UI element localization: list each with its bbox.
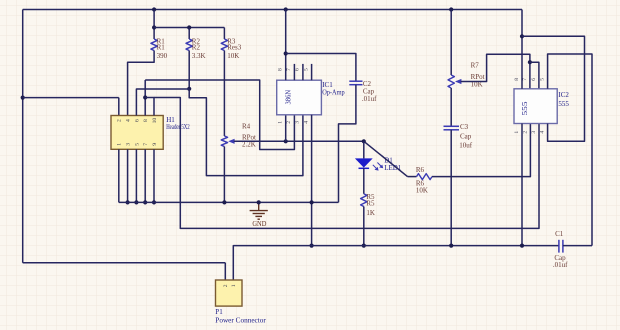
potentiometer R4 bbox=[221, 136, 234, 147]
label R6 comment bbox=[416, 179, 425, 187]
capacitor C3 bbox=[444, 126, 460, 130]
svg-text:C1: C1 bbox=[555, 230, 564, 238]
wire: op-amp pin 7 stub bbox=[293, 64, 295, 80]
wire: op-amp pin 6 stub bbox=[302, 64, 304, 80]
svg-text:Res3: Res3 bbox=[227, 44, 242, 52]
label R1 designator bbox=[157, 37, 166, 45]
label C2 comment Cap bbox=[363, 87, 375, 95]
wire: C1 right plate to pin 5 column bbox=[563, 245, 592, 247]
pin number H1 pin 7 bbox=[143, 143, 149, 146]
wire: ground bus horizontal bbox=[119, 201, 339, 203]
label D1 comment LED1 bbox=[384, 164, 402, 172]
pin number IC2 pin 2 bbox=[522, 131, 528, 134]
svg-text:.01uf: .01uf bbox=[553, 261, 568, 269]
svg-text:R7: R7 bbox=[471, 62, 480, 70]
node: ground bus junction at H1 pin 5 bbox=[134, 200, 138, 204]
svg-text:390: 390 bbox=[157, 52, 168, 60]
wire: long wire H1 pin 8 to op-amp pin 2 bbox=[145, 80, 294, 150]
svg-text:7: 7 bbox=[143, 143, 149, 146]
label IC2 designator bbox=[558, 91, 569, 99]
svg-text:R5: R5 bbox=[366, 199, 375, 207]
label R1 value 390 bbox=[157, 52, 168, 60]
node: bottom rail junction at op-amp pin 4 column bbox=[310, 244, 314, 248]
node: junction R1/R2/R3 tie bbox=[152, 25, 156, 29]
svg-text:555: 555 bbox=[522, 101, 529, 116]
pin number IC2 pin 3 bbox=[531, 131, 537, 134]
op-amp IC1 body bbox=[277, 80, 322, 115]
svg-text:5: 5 bbox=[303, 68, 309, 71]
wire: branch right to C2 top bbox=[286, 54, 356, 82]
node: junction H1 pin 8 / pin 10 branch bbox=[143, 95, 147, 99]
svg-text:.01uf: .01uf bbox=[362, 95, 377, 103]
svg-text:Header 5X2: Header 5X2 bbox=[166, 123, 190, 131]
pin number IC2 pin 4 bbox=[540, 131, 546, 134]
svg-text:8: 8 bbox=[278, 68, 284, 71]
label R6 value 10K bbox=[416, 187, 428, 195]
label IC1 386N rotated bbox=[286, 90, 293, 105]
svg-text:1: 1 bbox=[278, 121, 284, 124]
svg-text:4: 4 bbox=[126, 119, 132, 122]
label D1 designator bbox=[384, 157, 393, 165]
label R5 comment bbox=[366, 199, 375, 207]
pin number P1 pin 2 bbox=[223, 284, 229, 287]
label R4 designator bbox=[242, 123, 251, 131]
node: ground bus junction at H1 pin 3 bbox=[126, 200, 130, 204]
svg-text:5: 5 bbox=[540, 78, 546, 81]
wire: rail down to op-amp pin 8 bbox=[285, 10, 287, 81]
wire: H1 pin 1 to ground bus bbox=[118, 149, 120, 202]
wire: left vertical rail bbox=[22, 10, 24, 263]
node: top rail junction at op-amp pin 8 bbox=[284, 7, 288, 11]
svg-text:1: 1 bbox=[231, 284, 237, 287]
wire: horizontal tie to R2 and R3 tops bbox=[154, 27, 224, 29]
label R4 value 2.2K bbox=[242, 140, 256, 148]
wire: R3 top lead bbox=[223, 28, 225, 40]
wire: C2 bottom around to ground bus end bbox=[339, 85, 356, 203]
pin number H1 pin 2 bbox=[117, 119, 123, 122]
svg-text:1K: 1K bbox=[366, 209, 375, 217]
wire: bottom supply rail from P1 pin 1 to C1 bbox=[233, 246, 559, 280]
wire: H1 pin 8 up to long feedback wire bbox=[144, 80, 146, 116]
label IC1 comment Op-Amp bbox=[322, 88, 345, 96]
pin number IC1 pin 1 bbox=[278, 121, 284, 124]
pin number H1 pin 9 bbox=[152, 143, 158, 146]
svg-text:5: 5 bbox=[134, 143, 140, 146]
label C1 designator bbox=[555, 230, 564, 238]
resistor R2 bbox=[186, 39, 192, 51]
node: ground bus junction at R4 bbox=[222, 200, 226, 204]
pin number H1 pin 4 bbox=[126, 119, 132, 122]
pin number IC2 pin 7 bbox=[522, 78, 528, 81]
svg-text:9: 9 bbox=[152, 143, 158, 146]
svg-text:4: 4 bbox=[540, 131, 546, 134]
label GND bbox=[252, 221, 266, 228]
svg-text:555: 555 bbox=[558, 100, 569, 108]
wire: R6 right lead to 555 pin 2 bbox=[432, 124, 530, 177]
pin number IC1 pin 7 bbox=[286, 68, 292, 71]
label R2 comment bbox=[192, 44, 201, 52]
label R3 comment Res3 bbox=[227, 44, 242, 52]
svg-text:2: 2 bbox=[223, 284, 229, 287]
label R7 designator bbox=[471, 62, 480, 70]
pin number IC1 pin 5 bbox=[303, 68, 309, 71]
wire: R4 bottom to ground bus bbox=[223, 147, 225, 203]
ground symbol GND bbox=[250, 202, 268, 219]
resistor R1 bbox=[151, 39, 157, 51]
label R7 comment RPot bbox=[471, 73, 485, 81]
svg-text:3: 3 bbox=[295, 121, 301, 124]
wire: H1 pin 5 to ground bus bbox=[135, 149, 137, 202]
capacitor C2 bbox=[349, 81, 362, 85]
timer IC2 body bbox=[514, 89, 557, 124]
svg-text:IC2: IC2 bbox=[558, 91, 569, 99]
pin number IC1 pin 8 bbox=[278, 68, 284, 71]
wire: branch to 555 pin 3 (lower long route) bbox=[154, 98, 539, 229]
pin number P1 pin 1 bbox=[231, 284, 237, 287]
wire: rail to H1 pin 2 bbox=[23, 98, 119, 116]
wire: op-amp pin 1 down to wiper wire bbox=[285, 115, 287, 142]
label R3 value 10K bbox=[227, 52, 239, 60]
svg-text:10K: 10K bbox=[416, 187, 428, 195]
wire: C3 bottom to bottom rail bbox=[450, 130, 452, 246]
node: junction at R2 top bbox=[187, 25, 191, 29]
label R5 value 1K bbox=[366, 209, 375, 217]
label C3 value 10uf bbox=[459, 141, 473, 149]
pin number IC1 pin 6 bbox=[295, 68, 301, 71]
label C3 designator bbox=[460, 123, 469, 131]
pin number IC2 pin 8 bbox=[514, 78, 520, 81]
connector H1 body bbox=[111, 116, 163, 150]
node: ground bus junction at GND bbox=[257, 200, 261, 204]
wire: tie to 555 pin 6 bbox=[530, 62, 539, 89]
svg-text:Op-Amp: Op-Amp bbox=[322, 88, 345, 96]
pin number IC2 pin 5 bbox=[540, 78, 546, 81]
wire: H1 pin 6 up and right to R2 junction bbox=[136, 89, 189, 116]
label C2 value .01uf bbox=[362, 95, 377, 103]
svg-text:8: 8 bbox=[514, 78, 520, 81]
svg-text:1: 1 bbox=[117, 143, 123, 146]
wire: rail down to R7 top bbox=[450, 10, 452, 76]
node: top rail junction at R1 column bbox=[152, 7, 156, 11]
node: bottom rail junction at R5 bbox=[362, 244, 366, 248]
pin number IC1 pin 4 bbox=[303, 121, 309, 124]
wire: H1 pin 7 to ground bus bbox=[144, 149, 146, 202]
label C3 comment Cap bbox=[460, 132, 472, 140]
LED D1 emission arrows bbox=[373, 163, 383, 171]
label R1 comment bbox=[157, 44, 166, 52]
pin number H1 pin 5 bbox=[134, 143, 140, 146]
svg-text:7: 7 bbox=[286, 68, 292, 71]
svg-text:Power Connector: Power Connector bbox=[215, 316, 266, 324]
label C1 value .01uf bbox=[553, 261, 568, 269]
svg-text:8: 8 bbox=[143, 119, 149, 122]
svg-text:386N: 386N bbox=[286, 90, 293, 105]
svg-text:4: 4 bbox=[303, 121, 309, 124]
label P1 designator bbox=[215, 308, 223, 316]
wire: R3 bottom lead to R4 top bbox=[223, 51, 225, 137]
resistor R6 bbox=[417, 174, 433, 180]
wire: R1 bottom to H1 pin 4 bbox=[128, 51, 155, 116]
pin number H1 pin 10 bbox=[152, 118, 158, 124]
pin number H1 pin 3 bbox=[126, 143, 132, 146]
resistor R5 bbox=[361, 194, 367, 207]
wire: rail drop to R1 top bbox=[153, 10, 155, 40]
label P1 comment Power Connector bbox=[215, 316, 266, 324]
pin number H1 pin 1 bbox=[117, 143, 123, 146]
node: rail junction to H1 pin 2 net bbox=[21, 96, 25, 100]
wire: R2 top lead bbox=[188, 28, 190, 40]
svg-text:3: 3 bbox=[531, 131, 537, 134]
svg-text:R2: R2 bbox=[192, 44, 201, 52]
node: junction R2 / H1 pin 6 net bbox=[187, 87, 191, 91]
svg-text:7: 7 bbox=[522, 78, 528, 81]
label IC2 555 rotated bbox=[522, 101, 529, 116]
wire: op-amp pin 5 stub bbox=[311, 64, 313, 80]
pin number H1 pin 6 bbox=[134, 119, 140, 122]
svg-text:Cap: Cap bbox=[363, 87, 375, 95]
node: junction 555 pin 7 / pin 6 tie bbox=[528, 60, 532, 64]
svg-text:C3: C3 bbox=[460, 123, 469, 131]
wire: R5 bottom to bottom rail bbox=[363, 207, 365, 246]
svg-text:10uf: 10uf bbox=[459, 141, 473, 149]
node: bottom rail junction at 555 pin 1 bbox=[520, 244, 524, 248]
svg-text:6: 6 bbox=[295, 68, 301, 71]
label H1 designator bbox=[166, 116, 175, 124]
pin number IC1 pin 2 bbox=[286, 121, 292, 124]
label R3 designator bbox=[227, 37, 236, 45]
svg-text:1: 1 bbox=[514, 131, 520, 134]
svg-text:R1: R1 bbox=[157, 44, 166, 52]
label R4 comment RPot bbox=[242, 134, 256, 142]
resistor R3 bbox=[221, 39, 227, 51]
svg-text:2: 2 bbox=[522, 131, 528, 134]
node: junction wiper wire / LED anode bbox=[362, 139, 366, 143]
label R6 designator bbox=[416, 166, 425, 174]
node: bottom rail junction at C3 column bbox=[449, 244, 453, 248]
wire: bottom-left horizontal to P1 pin 2 bbox=[23, 263, 226, 280]
label R5 designator bbox=[366, 193, 375, 201]
wire: op-amp pin 4 down through bus to bottom rail bbox=[311, 115, 313, 246]
wire: 555 pin 1 down to bottom rail bbox=[521, 124, 523, 246]
svg-text:6: 6 bbox=[531, 78, 537, 81]
LED D1 bbox=[355, 141, 373, 194]
svg-text:10K: 10K bbox=[227, 52, 239, 60]
svg-text:3.3K: 3.3K bbox=[192, 52, 206, 60]
svg-text:2: 2 bbox=[286, 121, 292, 124]
svg-text:R4: R4 bbox=[242, 123, 251, 131]
svg-text:P1: P1 bbox=[215, 308, 223, 316]
svg-text:3: 3 bbox=[126, 143, 132, 146]
label C2 designator bbox=[363, 80, 372, 88]
wire: R7 wiper to 555 pins 7 and 6 bbox=[461, 54, 530, 89]
label IC2 comment 555 bbox=[558, 100, 569, 108]
wire: 555 pin 4 reset loop bbox=[522, 36, 585, 141]
pin number IC1 pin 3 bbox=[295, 121, 301, 124]
label R2 designator bbox=[192, 37, 201, 45]
svg-text:Cap: Cap bbox=[460, 132, 472, 140]
wire: H1 pin 10 up and left branch bbox=[145, 98, 154, 116]
wire: 555 pin 5 up and right to C1 column bbox=[548, 54, 592, 246]
wire: H1 pin 9 to ground bus bbox=[153, 149, 155, 202]
wire: top rail corner down to 555 pin 8 bbox=[521, 10, 523, 89]
connector P1 body bbox=[216, 280, 243, 306]
label H1 comment Header 5X2 bbox=[166, 123, 190, 131]
node: ground bus junction at H1 pin 7 bbox=[143, 200, 147, 204]
label IC1 designator bbox=[322, 81, 333, 89]
svg-text:2: 2 bbox=[117, 119, 123, 122]
wire: R2 junction down-right to op-amp pin 3 net bbox=[189, 89, 303, 176]
node: junction op-amp pin 8 / C2 branch bbox=[284, 51, 288, 55]
wire: R4 wiper to op-amp pin 1 and LED bbox=[234, 140, 364, 142]
label R7 value 10K bbox=[471, 81, 483, 89]
svg-text:GND: GND bbox=[252, 221, 266, 228]
svg-text:10: 10 bbox=[152, 118, 158, 124]
wire: R2 bottom lead to junction bbox=[188, 51, 190, 89]
wire: diagonal from LED node to R6 bbox=[364, 141, 408, 176]
node: junction 555 pin 8 / pin 4 loop bbox=[520, 34, 524, 38]
wire: +V top rail bbox=[23, 9, 522, 11]
capacitor C1 bbox=[559, 240, 563, 253]
pin number H1 pin 8 bbox=[143, 119, 149, 122]
pin number IC2 pin 1 bbox=[514, 131, 520, 134]
svg-text:6: 6 bbox=[134, 119, 140, 122]
node: top rail junction at R7 bbox=[449, 7, 453, 11]
wire: R7 bottom to C3 bbox=[450, 88, 452, 126]
node: ground bus junction at op-amp pin 4 bbox=[310, 200, 314, 204]
potentiometer R7 bbox=[448, 75, 461, 88]
label C1 comment Cap bbox=[554, 254, 566, 262]
wire: H1 pin 3 to ground bus bbox=[127, 149, 129, 202]
label R2 value 3.3K bbox=[192, 52, 206, 60]
wire: R6 left lead bbox=[408, 176, 417, 178]
node: ground bus junction at H1 pin 9 bbox=[152, 200, 156, 204]
svg-text:R6: R6 bbox=[416, 166, 425, 174]
pin number IC2 pin 6 bbox=[531, 78, 537, 81]
node: junction wiper wire / op-amp pin 1 bbox=[284, 139, 288, 143]
